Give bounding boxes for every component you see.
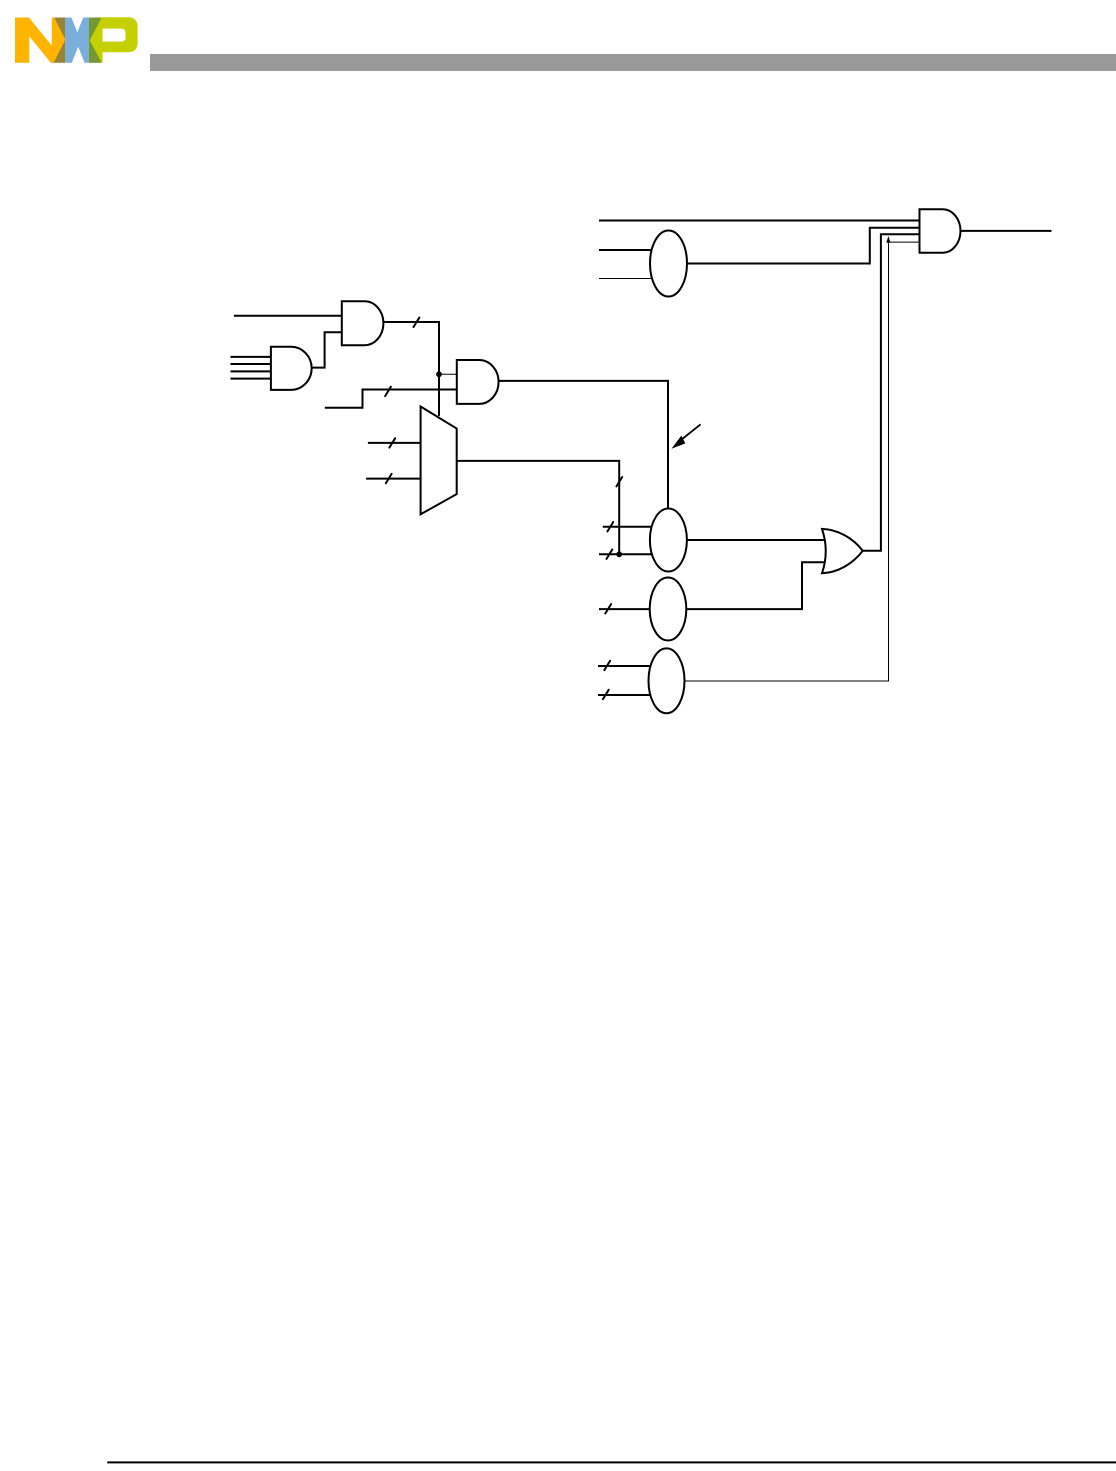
or-gate OR1	[822, 529, 863, 573]
wire mux input 2	[366, 478, 421, 480]
wire G2 input 1	[231, 356, 271, 358]
wire node to G3 input 1	[439, 373, 457, 375]
buffer E2	[650, 509, 687, 572]
wire E4 input 1	[598, 665, 650, 667]
wire mux output to E2	[457, 461, 620, 554]
wire U1 output	[961, 230, 1052, 232]
wire mux input 1	[368, 442, 421, 444]
wire G2 input 3	[231, 370, 271, 372]
junction node on G1 output bus	[436, 371, 442, 377]
wire E1 input 1	[599, 249, 655, 251]
wire OR1 output to U1	[863, 234, 920, 551]
header bar	[150, 54, 1116, 71]
NXP logo	[15, 17, 138, 63]
bus slash mux output	[616, 477, 622, 486]
wire E3 input	[599, 608, 652, 610]
wire G2 input 4	[231, 378, 271, 380]
bus slash E4 input 1	[604, 661, 610, 670]
wire E3 output to OR1	[668, 562, 826, 609]
wire E1 output to U1	[669, 228, 920, 264]
and-gate G3	[457, 360, 499, 404]
wire G2 output to G1	[312, 332, 342, 367]
and-gate G2	[271, 347, 312, 390]
buffer E4	[649, 648, 685, 713]
bus slash G1 output	[414, 318, 420, 327]
and-gate G1	[342, 301, 384, 345]
wire E1 input 2	[599, 278, 660, 280]
wire G1 input 1	[234, 315, 342, 317]
wire E2 input 1	[603, 526, 652, 528]
wire E4 input 2	[598, 694, 650, 696]
mux M1	[421, 407, 457, 515]
wire net A top	[599, 220, 920, 222]
bus slash mux input 1	[389, 438, 395, 447]
arrowhead on E4 wire corner	[886, 236, 890, 243]
wire E2 output to OR1	[668, 539, 826, 541]
bus slash mux input 2	[386, 474, 392, 483]
bus slash E3 input	[605, 604, 611, 613]
wire G2 input 2	[231, 363, 271, 365]
footer rule	[107, 1461, 1116, 1463]
wire G3 input 2	[325, 390, 457, 408]
buffer E1	[650, 231, 687, 297]
junction node on E2 input 2	[616, 551, 622, 557]
wire E4 output to U1	[667, 242, 920, 681]
and-gate U1	[920, 209, 961, 253]
bus slash E2 input 2	[607, 550, 613, 559]
bus slash E4 input 2	[603, 690, 609, 699]
annotation arrow	[672, 424, 701, 448]
bus slash E2 input 1	[607, 522, 613, 531]
wire G3 output to E2	[499, 381, 668, 509]
buffer E3	[650, 578, 687, 641]
bus slash G3 input 2	[385, 387, 391, 396]
wire G1 output to mux select	[383, 322, 439, 416]
wire E2 input 2	[599, 553, 652, 555]
